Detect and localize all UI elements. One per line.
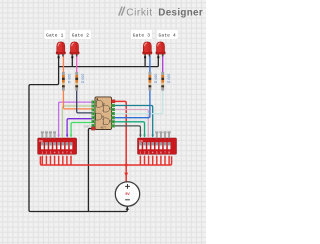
label Gate 2 — [70, 30, 92, 40]
wire pale cyan gate4 R4 bottom to IC pin11 — [113, 86, 163, 114]
logo Cirkit Designer — [119, 7, 203, 19]
svg-text:9V: 9V — [125, 192, 130, 196]
DIP switch S2 top pins — [156, 132, 171, 138]
wire red VCC: IC pin14 to bus junction to battery plus — [113, 101, 126, 181]
svg-text:ON: ON — [39, 139, 43, 143]
wire royal blue gate3 LED anode through R3 to IC pin10 — [113, 56, 150, 118]
wire black ground net: LED1 cathode down, left side loop, bottom rail to battery minus — [29, 57, 127, 212]
svg-text:GND: GND — [84, 125, 92, 129]
IC left pads pins 1-7 — [92, 101, 95, 127]
DIP switch S2 — [138, 138, 177, 154]
wire red DIP1 jumpers — [42, 157, 71, 165]
resistor R2 330ohm — [75, 72, 84, 91]
IC VCC pad red pin14 — [111, 100, 115, 103]
label Gate 1 — [44, 30, 66, 40]
DIP switch S1 — [38, 138, 77, 154]
IC pad dots right — [112, 105, 113, 127]
resistor R1 330ohm — [62, 72, 71, 91]
wire black IC GND pin to bottom rail — [88, 129, 93, 212]
IC GND pad red — [91, 127, 95, 130]
svg-text:Gate 3: Gate 3 — [133, 32, 151, 38]
DIP switch S1 top pins — [41, 132, 56, 138]
label Gate 3 — [131, 30, 153, 40]
wire black LED cathode bus — [59, 57, 159, 67]
resistor R4 330ohm — [161, 72, 170, 91]
LED D2 gate2 — [70, 42, 79, 58]
svg-text:Gate 4: Gate 4 — [158, 32, 176, 38]
LED D3 gate3 — [143, 42, 152, 58]
svg-text:330 Ω: 330 Ω — [80, 74, 84, 84]
wire spring green IC pin9 to DIP2 pin2 — [113, 122, 145, 137]
wire red DIP2 jumpers — [140, 157, 169, 165]
wire pale green IC pin2 to DIP1 pin6 — [62, 106, 92, 137]
IC pad dots left — [93, 101, 94, 126]
node red junction — [125, 164, 128, 167]
svg-text:330 Ω: 330 Ω — [67, 74, 71, 84]
svg-text:Gate 1: Gate 1 — [46, 32, 64, 38]
svg-text:4077: 4077 — [100, 127, 106, 130]
IC right pads pins 13-8 — [111, 104, 114, 127]
wire violet IC pin1 to DIP1 pin5 — [59, 102, 93, 137]
op IC U1 quad AND 7408 — [95, 97, 112, 130]
resistor R3 330ohm — [149, 72, 158, 91]
wire purple IC pin5 to DIP1 pin7 — [67, 119, 92, 137]
label Gate 4 — [156, 30, 178, 40]
red jumper arrow tips DIP1 — [41, 155, 72, 157]
wire green IC pin6 to DIP1 pin8 — [71, 123, 92, 137]
LED D1 gate1 — [56, 42, 65, 58]
wire navy gate2 R2 bottom to IC pin4 — [77, 86, 93, 113]
wire dark slate IC pin8 to DIP2 pin1 — [113, 126, 140, 137]
DIP S2 wire tips — [139, 135, 154, 138]
wire purple gate4 LED anode to R4 — [162, 56, 164, 76]
LED D4 gate4 — [156, 42, 165, 58]
wire orange gate1 LED anode through R1 to IC pin3 — [63, 56, 92, 109]
wire teal IC pin13 to DIP2 pin4 — [113, 106, 153, 137]
wire pink gate2 LED anode to R2 — [76, 56, 78, 76]
svg-text:ON: ON — [139, 139, 143, 143]
svg-text:Gate 2: Gate 2 — [72, 32, 90, 38]
red jumper arrow tips DIP2 — [139, 155, 170, 157]
wire red DIP supply bus — [40, 156, 171, 165]
svg-text:330 Ω: 330 Ω — [154, 74, 158, 84]
wire mauve IC pin12 to DIP2 pin3 — [113, 110, 148, 137]
DIP S1 wire tips — [57, 135, 72, 138]
svg-text:Designer: Designer — [158, 7, 203, 18]
battery BT1 9V — [115, 173, 139, 210]
svg-text:Cirkit: Cirkit — [126, 7, 153, 18]
svg-text:330 Ω: 330 Ω — [166, 74, 170, 84]
